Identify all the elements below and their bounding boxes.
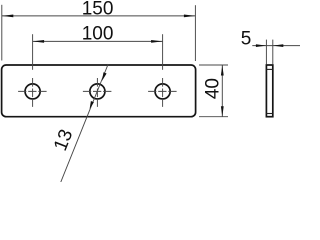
centerline H2 horizontal	[83, 90, 112, 92]
leader 13 line	[61, 64, 108, 182]
centerline H3 vertical	[162, 78, 164, 107]
side view outline	[266, 65, 272, 117]
side view corner line bottom	[266, 113, 272, 115]
dim 40 line	[221, 65, 223, 117]
side view corner line top	[266, 68, 272, 70]
dim 5 line	[252, 45, 300, 47]
plate outline (front view)	[2, 65, 196, 117]
leader 13 arrow upper	[102, 72, 107, 81]
dim 5 extension left	[265, 40, 267, 65]
dim 5 arrow left	[256, 44, 267, 47]
centerline H3 horizontal	[148, 90, 177, 92]
dim 100 extension left	[32, 34, 34, 70]
hole H3	[155, 84, 170, 99]
dim 150 line	[2, 15, 196, 17]
dim 150 arrow right	[184, 15, 196, 18]
dim 40 arrow top	[221, 65, 224, 76]
dim 5 extension right	[272, 40, 274, 65]
svg-text:100: 100	[82, 23, 114, 44]
dim 40 extension top	[199, 64, 228, 66]
svg-text:40: 40	[202, 78, 223, 99]
leader 13 arrow lower	[90, 101, 94, 109]
centerline H1 horizontal	[18, 90, 47, 92]
dim 150 extension right	[194, 5, 196, 61]
dim 40 extension bottom	[199, 116, 228, 118]
dim 100 arrow right	[151, 40, 163, 43]
dim 5 arrow right	[273, 44, 284, 47]
centerline H2 vertical	[96, 78, 98, 107]
dim 100 extension right	[162, 34, 164, 70]
hole H2	[90, 84, 105, 99]
dim 100 line	[33, 40, 163, 42]
svg-text:5: 5	[241, 28, 252, 49]
svg-text:150: 150	[82, 0, 114, 19]
dim 150 extension left	[1, 5, 3, 61]
hole H1	[25, 84, 40, 99]
dim 100 arrow left	[33, 40, 45, 43]
dim 40 arrow bottom	[221, 106, 224, 117]
centerline H1 vertical	[32, 78, 34, 107]
dim 150 arrow left	[2, 15, 14, 18]
